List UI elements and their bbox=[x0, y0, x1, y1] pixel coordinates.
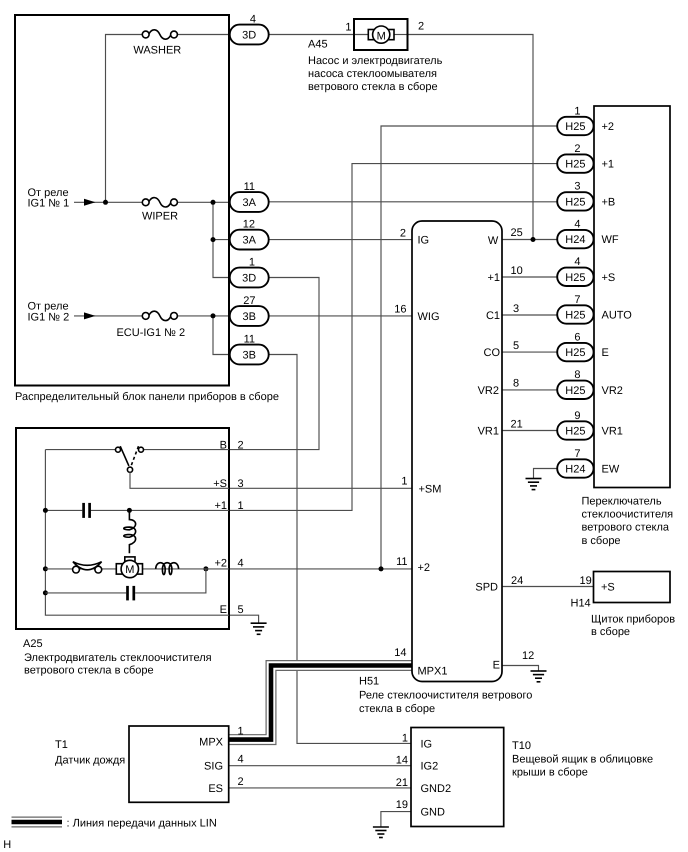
svg-text:VR2: VR2 bbox=[478, 385, 499, 397]
wiper switch box bbox=[594, 106, 670, 488]
node dot ECU bus bbox=[211, 313, 216, 318]
connector 3A pin12 bbox=[230, 230, 269, 250]
svg-text:H24: H24 bbox=[565, 464, 585, 476]
instrument panel junction block box bbox=[15, 15, 229, 386]
svg-text:C1: C1 bbox=[486, 310, 500, 322]
svg-text:+2: +2 bbox=[602, 121, 615, 133]
wire +1 row inside A25 bbox=[45, 509, 229, 511]
connector H25 +S bbox=[557, 268, 593, 286]
svg-text:3D: 3D bbox=[242, 30, 256, 42]
svg-text:H25: H25 bbox=[565, 385, 585, 397]
node dot bus +1 bbox=[43, 508, 48, 513]
wire relay VR2 to H25 VR2 bbox=[502, 389, 557, 391]
svg-text:7: 7 bbox=[574, 448, 580, 460]
svg-text:14: 14 bbox=[394, 647, 406, 659]
ground at H24 EW bbox=[526, 479, 542, 490]
wire ECU fuse to 3B(27) bbox=[178, 315, 230, 317]
svg-text:ES: ES bbox=[208, 783, 223, 795]
svg-text:VR1: VR1 bbox=[602, 426, 623, 438]
LIN legend sample bbox=[12, 817, 63, 828]
node dot bus +2 bbox=[43, 566, 48, 571]
svg-text:H: H bbox=[3, 839, 11, 851]
fuse WASHER bbox=[142, 30, 177, 39]
svg-text:H25: H25 bbox=[565, 347, 585, 359]
svg-text:24: 24 bbox=[511, 575, 523, 587]
wire stub to 3A(12) bbox=[213, 239, 230, 241]
svg-text:2: 2 bbox=[400, 228, 406, 240]
node dot bus cap2 bbox=[43, 590, 48, 595]
capacitor C2 (suppressor) bottom bbox=[128, 586, 134, 601]
svg-text:1: 1 bbox=[402, 732, 408, 744]
svg-text:19: 19 bbox=[580, 575, 592, 587]
svg-text:25: 25 bbox=[511, 227, 523, 239]
wire relay VR1 to H25 VR1 bbox=[502, 430, 557, 432]
node dot +2 junction bbox=[379, 566, 384, 571]
svg-text:насоса стеклоомывателя: насоса стеклоомывателя bbox=[308, 68, 437, 80]
svg-text:10: 10 bbox=[511, 265, 523, 277]
wire WASHER fuse to 3D(4) bbox=[178, 34, 230, 36]
svg-text:ветрового стекла: ветрового стекла bbox=[582, 522, 670, 534]
svg-text:ветрового стекла в сборе: ветрового стекла в сборе bbox=[24, 665, 154, 677]
svg-text:14: 14 bbox=[396, 755, 408, 767]
svg-text:WIPER: WIPER bbox=[142, 211, 178, 223]
svg-text:Щиток приборов: Щиток приборов bbox=[591, 614, 675, 626]
fuse ECU-IG1 No2 bbox=[142, 311, 177, 320]
roof console T10 box bbox=[411, 728, 504, 827]
svg-text:3B: 3B bbox=[242, 350, 255, 362]
svg-text:M: M bbox=[125, 564, 134, 576]
connector 3B pin11 bbox=[230, 345, 269, 365]
svg-text:11: 11 bbox=[396, 556, 407, 568]
svg-text:T1: T1 bbox=[55, 739, 68, 751]
node dot +1/coil bbox=[127, 508, 132, 513]
svg-text:8: 8 bbox=[574, 369, 580, 381]
svg-text:VR1: VR1 bbox=[478, 425, 499, 437]
connector H25 +1 bbox=[557, 154, 593, 172]
switch contacts in A25 bbox=[45, 446, 229, 472]
svg-text:H25: H25 bbox=[565, 310, 585, 322]
svg-text:+S: +S bbox=[602, 272, 616, 284]
wire +SM row motor +S to relay bbox=[229, 487, 412, 489]
svg-text:ECU-IG1 № 2: ECU-IG1 № 2 bbox=[116, 327, 185, 339]
svg-text:в сборе: в сборе bbox=[591, 626, 630, 638]
wire +2 row motor to relay bbox=[229, 568, 412, 570]
svg-text:11: 11 bbox=[244, 181, 255, 193]
wire inside A45 to pin2 bbox=[394, 34, 408, 36]
svg-text:+B: +B bbox=[602, 196, 616, 208]
motor symbol A45 bbox=[368, 26, 394, 43]
svg-text:2: 2 bbox=[238, 439, 244, 451]
connector 3D pin4 bbox=[230, 25, 269, 45]
svg-text:IG: IG bbox=[421, 738, 433, 750]
svg-text:Реле стеклоочистителя ветровог: Реле стеклоочистителя ветрового bbox=[359, 689, 532, 701]
svg-text:SIG: SIG bbox=[204, 761, 223, 773]
wire motor E to ground bbox=[229, 615, 259, 623]
wire WIPER fuse to 3A(11) bbox=[178, 201, 230, 203]
wire T10 GND to ground bbox=[381, 812, 411, 827]
svg-text:H25: H25 bbox=[565, 159, 585, 171]
wire relay E to ground bbox=[502, 666, 539, 672]
svg-text:12: 12 bbox=[243, 218, 255, 230]
svg-text:IG2: IG2 bbox=[421, 761, 439, 773]
svg-text:1: 1 bbox=[574, 105, 580, 117]
svg-text:Вещевой ящик в облицовке: Вещевой ящик в облицовке bbox=[512, 753, 653, 765]
wire bus 3A(12)/3D(1) vertical bbox=[213, 202, 230, 277]
wire relay CO to H25 E bbox=[502, 351, 557, 353]
svg-text:Переключатель: Переключатель bbox=[582, 495, 662, 507]
node dot W junction bbox=[531, 237, 536, 242]
svg-text:+2: +2 bbox=[214, 557, 227, 569]
wire IG1 No2 feed to ECU fuse bbox=[74, 315, 142, 317]
wire LIN data line relay MPX1 to T1 MPX bbox=[229, 666, 412, 740]
svg-text:2: 2 bbox=[418, 21, 424, 33]
svg-text:Насос и электродвигатель: Насос и электродвигатель bbox=[308, 55, 443, 67]
connector 3D pin1 bbox=[230, 268, 269, 288]
connector H24 EW bbox=[557, 459, 593, 477]
arrowhead from relay IG1 No1 bbox=[84, 199, 96, 206]
svg-text:21: 21 bbox=[396, 777, 408, 789]
wiper relay H51 box bbox=[412, 221, 502, 682]
svg-text:19: 19 bbox=[396, 799, 408, 811]
wire relay C1 to H25 AUTO bbox=[502, 314, 557, 316]
instrument cluster H14 box bbox=[594, 572, 671, 603]
svg-text:5: 5 bbox=[513, 340, 519, 352]
capacitor C (suppressor) on +1 row bbox=[84, 503, 90, 518]
wire switch pole to +S pin bbox=[130, 472, 229, 488]
svg-text:4: 4 bbox=[574, 218, 580, 230]
svg-text:WF: WF bbox=[602, 234, 619, 246]
connector H25 VR1 bbox=[557, 421, 593, 439]
svg-text:1: 1 bbox=[401, 476, 407, 488]
svg-text:SPD: SPD bbox=[475, 581, 498, 593]
node dot WIPER bus bbox=[211, 200, 216, 205]
svg-text:A25: A25 bbox=[23, 638, 43, 650]
svg-text:WIG: WIG bbox=[418, 311, 440, 323]
node dot 3A12 branch bbox=[211, 237, 216, 242]
svg-text:E: E bbox=[602, 347, 609, 359]
svg-text:12: 12 bbox=[522, 650, 534, 662]
wire +2 row inside A25 bbox=[45, 568, 229, 570]
svg-text:AUTO: AUTO bbox=[602, 310, 633, 322]
wire A25 left bus bbox=[45, 450, 229, 616]
svg-text:IG1 № 1: IG1 № 1 bbox=[28, 198, 70, 210]
wire 3D(4) to A45 pin1 bbox=[269, 34, 368, 36]
svg-text:2: 2 bbox=[238, 776, 244, 788]
connector H25 AUTO bbox=[557, 305, 593, 323]
ground at T10 GND bbox=[373, 827, 389, 838]
wire W row relay to H24 WF bbox=[502, 239, 557, 241]
svg-text:H25: H25 bbox=[565, 426, 585, 438]
wire T1 ES to T10 GND2 bbox=[229, 787, 411, 789]
svg-text:3D: 3D bbox=[242, 273, 256, 285]
svg-text:1: 1 bbox=[345, 21, 351, 33]
svg-text:Датчик дождя: Датчик дождя bbox=[55, 754, 125, 766]
node dot +2/cap2 right bbox=[203, 566, 208, 571]
svg-text:27: 27 bbox=[243, 295, 255, 307]
connector H25 E bbox=[557, 343, 593, 361]
svg-text:+1: +1 bbox=[214, 500, 227, 512]
svg-text:+1: +1 bbox=[487, 272, 500, 284]
svg-text:MPX: MPX bbox=[199, 736, 224, 748]
ground at relay E pin bbox=[531, 671, 547, 682]
svg-text:Распределительный блок панели: Распределительный блок панели приборов в… bbox=[15, 391, 279, 403]
svg-text:IG1 № 2: IG1 № 2 bbox=[28, 311, 70, 323]
svg-text:16: 16 bbox=[394, 304, 406, 316]
svg-text:3: 3 bbox=[513, 303, 519, 315]
wire 3B(11) to T10 IG bbox=[269, 355, 411, 744]
wire bus 3B(11) vertical bbox=[213, 316, 230, 355]
svg-text:H24: H24 bbox=[565, 234, 585, 246]
svg-text:4: 4 bbox=[238, 753, 244, 765]
svg-text:E: E bbox=[493, 659, 500, 671]
svg-text:11: 11 bbox=[244, 333, 255, 345]
svg-text:21: 21 bbox=[511, 418, 523, 430]
svg-text:Электродвигатель стеклоочистит: Электродвигатель стеклоочистителя bbox=[24, 652, 212, 664]
svg-text:8: 8 bbox=[513, 378, 519, 390]
svg-text:3: 3 bbox=[574, 181, 580, 193]
svg-text:W: W bbox=[488, 235, 499, 247]
motor brushes arc bbox=[73, 562, 102, 573]
connector 3B pin27 bbox=[230, 306, 269, 326]
svg-text:3A: 3A bbox=[242, 235, 256, 247]
svg-text:+2: +2 bbox=[418, 562, 431, 574]
arrowhead from relay IG1 No2 bbox=[84, 312, 96, 319]
svg-text:H14: H14 bbox=[571, 597, 591, 609]
svg-text:H25: H25 bbox=[565, 196, 585, 208]
svg-text:: Линия передачи данных LIN: : Линия передачи данных LIN bbox=[67, 817, 217, 829]
svg-text:1: 1 bbox=[238, 725, 244, 737]
svg-text:ветрового стекла в сборе: ветрового стекла в сборе bbox=[308, 81, 438, 93]
connector 3A pin11 bbox=[230, 192, 269, 212]
inductor horizontal (noise coil) bbox=[156, 563, 179, 575]
wire WASHER branch vertical bbox=[106, 35, 143, 203]
svg-text:H25: H25 bbox=[565, 272, 585, 284]
svg-text:1: 1 bbox=[249, 256, 255, 268]
wire T1 SIG to T10 IG2 bbox=[229, 765, 411, 767]
wire A45 pin2 down to W node bbox=[408, 35, 534, 240]
wire relay +1 to H25 +S bbox=[502, 276, 557, 278]
svg-text:B: B bbox=[220, 439, 227, 451]
ground at motor E pin bbox=[251, 623, 267, 634]
connector H25 +2 bbox=[557, 117, 593, 135]
wire cap2 row inside A25 bbox=[45, 569, 206, 593]
svg-text:M: M bbox=[377, 30, 386, 42]
wire relay SPD to H14 +S bbox=[502, 586, 594, 588]
svg-text:крыши в сборе: крыши в сборе bbox=[512, 766, 588, 778]
wire H25 +2 down to +2 node bbox=[381, 126, 557, 569]
svg-text:IG: IG bbox=[418, 235, 430, 247]
washer motor A45 box bbox=[354, 19, 408, 50]
motor symbol M in A25 bbox=[116, 557, 142, 578]
wire H24 EW to ground bbox=[534, 469, 558, 479]
svg-text:7: 7 bbox=[574, 294, 580, 306]
connector H25 VR2 bbox=[557, 381, 593, 399]
svg-text:4: 4 bbox=[574, 256, 580, 268]
connector H25 +B bbox=[557, 192, 593, 210]
rain sensor T1 box bbox=[129, 726, 229, 802]
wire IG row 3A(12) to relay IG bbox=[269, 239, 412, 241]
svg-text:H25: H25 bbox=[565, 121, 585, 133]
wire IG1 No1 feed to WIPER fuse bbox=[74, 201, 142, 203]
svg-text:9: 9 bbox=[574, 410, 580, 422]
svg-text:MPX1: MPX1 bbox=[418, 665, 448, 677]
svg-text:A45: A45 bbox=[308, 38, 328, 50]
svg-text:VR2: VR2 bbox=[602, 385, 623, 397]
svg-text:3: 3 bbox=[238, 478, 244, 490]
svg-text:3B: 3B bbox=[242, 311, 255, 323]
svg-text:3A: 3A bbox=[242, 197, 256, 209]
svg-text:2: 2 bbox=[574, 143, 580, 155]
svg-text:4: 4 bbox=[250, 13, 256, 25]
svg-text:H51: H51 bbox=[359, 676, 379, 688]
wire +B row 3A(11) to H25 bbox=[269, 201, 558, 203]
svg-text:+S: +S bbox=[601, 581, 615, 593]
connector H24 WF bbox=[557, 230, 593, 248]
svg-text:+SM: +SM bbox=[419, 484, 442, 496]
svg-text:T10: T10 bbox=[512, 740, 531, 752]
svg-text:6: 6 bbox=[574, 331, 580, 343]
svg-text:GND2: GND2 bbox=[421, 783, 452, 795]
fuse WIPER bbox=[142, 198, 177, 207]
svg-text:4: 4 bbox=[238, 557, 244, 569]
wire 3D(1) to motor B bbox=[229, 278, 319, 450]
svg-text:стекла в сборе: стекла в сборе bbox=[359, 703, 435, 715]
node dot WASHER branch bbox=[103, 200, 108, 205]
wiper motor A25 box bbox=[16, 428, 229, 629]
wire H25 +1 to motor +1 bbox=[229, 164, 557, 511]
inductor vertical (armature choke) bbox=[124, 510, 136, 553]
svg-text:WASHER: WASHER bbox=[133, 45, 181, 57]
svg-text:GND: GND bbox=[421, 807, 446, 819]
svg-text:в сборе: в сборе bbox=[582, 535, 621, 547]
svg-text:5: 5 bbox=[238, 604, 244, 616]
svg-text:E: E bbox=[220, 604, 227, 616]
svg-text:стеклоочистителя: стеклоочистителя bbox=[582, 509, 674, 521]
wire WIG row 3B(27) to relay WIG bbox=[269, 315, 412, 317]
svg-text:1: 1 bbox=[238, 500, 244, 512]
svg-text:EW: EW bbox=[602, 464, 620, 476]
svg-text:CO: CO bbox=[484, 347, 501, 359]
svg-text:+S: +S bbox=[213, 478, 227, 490]
svg-text:+1: +1 bbox=[602, 159, 615, 171]
